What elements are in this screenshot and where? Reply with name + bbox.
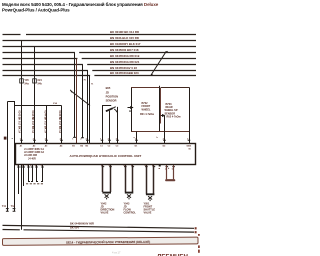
svg-text:R02 4-7кОм: R02 4-7кОм [167,116,181,119]
sensor wire SW3 [117,107,119,144]
wire D x23.7 [23,165,25,186]
ground stud square [4,137,7,140]
svg-text:WHEEL: WHEEL [142,108,152,111]
svg-text:BK 0010R BK 014 RD: BK 0010R BK 014 RD [110,30,139,34]
svg-text:Модели всех 5400 5430, 005.4 -: Модели всех 5400 5430, 005.4 - Гидравлич… [2,1,159,7]
solenoid Y05 brown [166,165,174,180]
box B703 top edge [161,87,190,89]
bottom bus line L2 [3,230,195,233]
brown solenoid pin specks [159,168,170,170]
right edge marks [198,234,200,236]
svg-text:0142 BK 017 BK 14: 0142 BK 017 BK 14 [18,111,21,134]
bus line 6 [3,64,197,66]
harness slash S2 [70,90,90,106]
wire E x21.7 long [21,165,23,230]
sensor B05 label [106,86,119,103]
solenoid Y043 label [124,203,137,215]
sensor wire SW2 [109,111,111,144]
solenoid Y044 [146,165,155,201]
box B703 labels [165,103,181,119]
svg-text:BN 0347K60AV 0 22: BN 0347K60AV 0 22 [110,66,137,70]
svg-text:0145 BK 017 BK 14: 0145 BK 017 BK 14 [58,111,61,134]
bottom line end marks [195,227,197,229]
wire W1 drop x21.5 [21,41,23,144]
svg-text:BK 0347K60A RD 019: BK 0347K60A RD 019 [110,54,140,58]
box B703 left edge brown [160,88,162,124]
svg-text:R01 4-7кОм: R01 4-7кОм [140,113,154,116]
svg-text:B05: B05 [106,86,111,90]
sensor B05 wiper symbol [103,106,118,144]
svg-text:X4a: X4a [24,82,29,85]
svg-text:VALVE: VALVE [101,212,109,215]
wire B x14 long [14,106,16,212]
connector X2 plug on W2 [33,79,37,83]
solenoid Y042 label [101,203,115,215]
box B702 bottom pin specks [134,137,159,139]
wire I x42.5 hook [41,165,43,182]
svg-text:BK 0440K60AV 60R: BK 0440K60AV 60R [70,221,94,225]
svg-text:0144 BK 017 BK 14: 0144 BK 017 BK 14 [43,111,46,134]
svg-text:BN 0034-BLK 015 RD: BN 0034-BLK 015 RD [110,36,139,40]
bundle wire micro labels [84,80,95,86]
pin ticks below control unit edge [17,166,175,167]
box B702 labels [140,102,154,116]
wire A x7.3 long [7,102,9,212]
box B703 top notch [159,86,161,88]
svg-text:4 из 17: 4 из 17 [112,250,121,254]
bus line 2 [3,40,197,42]
tick near stud [12,138,13,140]
footer bar [2,237,198,245]
svg-text:VALVE: VALVE [144,212,152,215]
pin numbers row inside top [20,144,191,147]
svg-text:SENSOR: SENSOR [106,99,117,103]
wire C x18.5 [18,165,20,194]
svg-text:AUTO-POWRQUAD HYDRAULIC CONTRO: AUTO-POWRQUAD HYDRAULIC CONTROL UNIT [70,154,142,158]
bus line 4 [3,52,197,54]
wire W4 drop x76.8 brown [76,59,78,144]
bottom bus line L1 [3,225,195,228]
wire B end tick [13,209,16,212]
box B703 pin arrow [161,115,165,117]
svg-text:PowrQuad-Plus / AutoQuad-Plus: PowrQuad-Plus / AutoQuad-Plus [2,8,70,13]
svg-text:CONTROL: CONTROL [124,212,137,215]
svg-text:X4b: X4b [37,82,42,85]
wire H x36.5 hook [37,165,39,182]
box B702 pin arrow [128,107,134,109]
svg-text:Y11: Y11 [2,205,7,208]
connector X1 plug on W1 [20,79,24,83]
svg-text:J4 40R: J4 40R [28,157,36,160]
wire W11 from B702 [136,132,138,144]
wire W9 x46.5 [46,106,48,144]
dashed link under hooks [26,183,44,185]
wire W7 drop x89.6 [89,76,91,144]
svg-text:BK 0347K60ABB 023: BK 0347K60ABB 023 [110,71,139,75]
bus line 8 [3,75,197,77]
wire A end tick [6,209,9,212]
wire W2 drop x34.5 [34,47,36,144]
svg-text:0143 BK 017 BK 14: 0143 BK 017 BK 14 [31,111,34,134]
solenoid Y044 label [144,203,156,215]
svg-text:BK 0134600Y BLK 017: BK 0134600Y BLK 017 [110,42,141,46]
bus line 3 [3,46,197,48]
svg-text:POSITION: POSITION [106,95,119,99]
svg-text:SE14 - ГИДРАВЛИЧЕСКИЙ БЛОК УПР: SE14 - ГИДРАВЛИЧЕСКИЙ БЛОК УПРАВЛЕНИЯ (D… [66,240,150,245]
bus line 1 [3,34,197,36]
control unit internal text rows [24,148,45,161]
pin ticks above control unit edge [20,139,190,141]
box B703 right edge [189,88,191,144]
pin micro labels above edge [20,137,190,140]
svg-text:Y12: Y12 [11,205,16,208]
wire W12 from B703 [164,116,166,144]
box B703 bottom edge [160,131,190,133]
wire W6 drop x87.4 [87,71,89,144]
wire W3 drop x74.2 [73,53,76,138]
harness slash S1 [151,51,168,75]
svg-text:BN 0345600 BK7 018: BN 0345600 BK7 018 [110,48,139,52]
stub pin x159.8 [159,165,161,167]
svg-text:JD: JD [106,90,109,94]
svg-text:BK 60V: BK 60V [70,226,79,230]
box B702 [132,88,160,132]
bus line 5 [3,58,197,60]
right inner labels [189,145,193,150]
svg-text:BN 0347K60A RD 021: BN 0347K60A RD 021 [110,60,140,64]
solenoid Y042 [102,165,111,199]
wire F x28.5 hook [29,165,31,182]
solenoid Y043 [125,165,134,199]
wire W5 drop x82.3 [81,65,84,138]
connector bracket XL [8,102,62,106]
control unit U1 box [16,144,196,165]
wire G x32 hook [31,165,33,182]
bus line 7 [3,70,197,72]
pin micro labels below edge [17,164,174,170]
bracket right edge x61.5 [61,106,63,144]
